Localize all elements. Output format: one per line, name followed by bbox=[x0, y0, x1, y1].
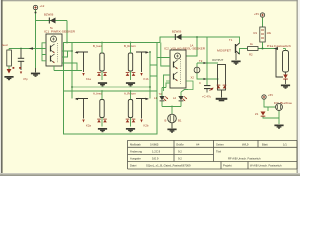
IC1 dashed line bbox=[57, 43, 59, 63]
relay K1 coil bbox=[100, 53, 104, 71]
buzzer SP1 bbox=[168, 114, 177, 123]
capacitor C2 bbox=[204, 85, 213, 93]
wire rail extension bbox=[157, 37, 160, 43]
diode Z1 bbox=[261, 112, 266, 117]
svg-text:R2: R2 bbox=[249, 53, 253, 57]
svg-text:5:E.9: 5:E.9 bbox=[152, 157, 159, 161]
IC2 dashed line bbox=[180, 59, 182, 84]
ground K1b bbox=[126, 82, 135, 86]
ground K1 bbox=[98, 82, 107, 86]
relay K2a contact bbox=[75, 98, 89, 123]
svg-text:A_feed: A_feed bbox=[93, 92, 102, 96]
arrow mark output bbox=[204, 62, 207, 64]
svg-text:+5V: +5V bbox=[254, 12, 259, 16]
connector X1 feed bbox=[7, 49, 12, 70]
title block row2 bbox=[130, 150, 182, 161]
svg-text:L1: L1 bbox=[154, 96, 158, 100]
wire IC1 right pin to relay col1 bbox=[62, 43, 72, 99]
svg-text:+5V: +5V bbox=[268, 93, 273, 97]
svg-text:1/1: 1/1 bbox=[283, 143, 287, 147]
pin arrow on feed wire bbox=[29, 47, 34, 50]
op IC1 box bbox=[46, 34, 62, 66]
resistor R2 bbox=[248, 47, 259, 51]
relay K1b coil bbox=[128, 53, 132, 71]
svg-text:+C 47u: +C 47u bbox=[202, 95, 212, 99]
junction dot feed bbox=[20, 48, 22, 50]
svg-text:K2a: K2a bbox=[86, 124, 91, 128]
wire top D2 row bbox=[160, 37, 248, 54]
diodes in output box bbox=[217, 85, 227, 89]
relay group box bbox=[64, 43, 158, 135]
svg-text:0.6665: 0.6665 bbox=[150, 143, 159, 147]
capacitor C1 bbox=[18, 49, 24, 75]
window border left bbox=[0, 0, 1, 176]
title block frame bbox=[128, 140, 298, 169]
window border bottom bbox=[0, 173, 300, 174]
red speck 1 bbox=[13, 67, 15, 69]
relay group divider bbox=[64, 90, 158, 92]
svg-text:K1a: K1a bbox=[86, 77, 91, 81]
supply +5V top bbox=[260, 13, 264, 17]
diode under switch bbox=[283, 75, 288, 80]
svg-text:10k: 10k bbox=[267, 31, 272, 35]
svg-text:RF A/B Umsch. Fastswitch: RF A/B Umsch. Fastswitch bbox=[228, 157, 261, 161]
wire IC1 left pin hooks bbox=[36, 43, 46, 61]
svg-text:X2: X2 bbox=[191, 76, 195, 80]
svg-text:W A/B Umsch. Fastswitch: W A/B Umsch. Fastswitch bbox=[250, 164, 282, 168]
ground output bbox=[221, 90, 223, 98]
led LED1 bbox=[159, 96, 168, 101]
svg-text:IC1 PWRX-SEEKER: IC1 PWRX-SEEKER bbox=[44, 30, 75, 34]
svg-text:Maßstab: Maßstab bbox=[130, 143, 141, 147]
diode at feed bbox=[7, 69, 12, 74]
svg-text:Datei: Datei bbox=[130, 164, 137, 168]
ground K2b bbox=[126, 128, 135, 132]
IC1 oscillator circle bbox=[51, 36, 57, 42]
svg-text:MOSFET: MOSFET bbox=[217, 49, 231, 53]
svg-text:R1: R1 bbox=[254, 31, 258, 35]
ground T1 bbox=[231, 61, 240, 65]
svg-text:BZW06: BZW06 bbox=[172, 30, 182, 34]
title block row1 labels bbox=[130, 143, 287, 147]
wire IC2 bottom staircase bbox=[166, 81, 193, 90]
ground K2 bbox=[98, 128, 107, 132]
diode D2 bbox=[175, 34, 182, 40]
ground dc jack bbox=[274, 125, 283, 129]
wire D2 junction down to IC2 bbox=[186, 37, 197, 56]
wire dc jack bbox=[263, 100, 279, 124]
svg-text:73: 73 bbox=[159, 92, 163, 96]
svg-text:9:2: 9:2 bbox=[178, 150, 182, 154]
svg-text:P1a Fastswitch: P1a Fastswitch bbox=[267, 44, 292, 48]
wire diode top row bbox=[36, 21, 68, 43]
svg-text:B_feed: B_feed bbox=[93, 44, 102, 48]
svg-text:9:2: 9:2 bbox=[178, 157, 182, 161]
svg-text:T2: T2 bbox=[199, 59, 203, 63]
connector output box bbox=[218, 65, 226, 91]
supply +12V bbox=[33, 5, 37, 9]
junction dots bbox=[66, 42, 208, 108]
window border top bbox=[0, 0, 300, 1]
ground fastswitch bbox=[281, 85, 290, 89]
svg-text:T1: T1 bbox=[229, 38, 233, 42]
svg-text:C: C bbox=[199, 81, 201, 85]
IC1 transistor Q b bbox=[51, 54, 55, 63]
wire +5V down bbox=[262, 18, 264, 27]
supply +5V bottom bbox=[262, 95, 266, 99]
title block row4 bbox=[130, 164, 282, 168]
svg-text:K1b: K1b bbox=[144, 77, 149, 81]
relay K2 coil bbox=[100, 100, 104, 118]
wire R1 to rail bbox=[262, 42, 264, 49]
relay K2b contact bbox=[136, 98, 149, 123]
op IC2 box bbox=[170, 50, 186, 88]
diodes under K2b coil bbox=[126, 119, 136, 123]
svg-text:Änderung: Änderung bbox=[130, 150, 142, 154]
wire IC2 right to output node bbox=[197, 37, 219, 85]
svg-text:Größe: Größe bbox=[176, 143, 184, 147]
svg-text:1:2C.9: 1:2C.9 bbox=[152, 150, 161, 154]
diodes under K2 coil bbox=[97, 119, 107, 123]
connector switch box bbox=[283, 51, 289, 73]
svg-text:OUTPUT: OUTPUT bbox=[212, 58, 224, 62]
wire IC2 left pin staircase bbox=[157, 43, 170, 92]
wire buzzer bbox=[162, 107, 181, 115]
svg-text:K2b: K2b bbox=[144, 124, 149, 128]
svg-text:Blatt: Blatt bbox=[262, 143, 268, 147]
svg-text:B: B bbox=[165, 119, 167, 123]
wire base rail bbox=[258, 48, 276, 50]
IC2 transistor Q a bbox=[174, 60, 178, 69]
svg-text:B1: B1 bbox=[178, 119, 182, 123]
svg-text:BZW06: BZW06 bbox=[44, 13, 54, 17]
svg-text:+12: +12 bbox=[40, 4, 45, 8]
svg-text:Seiten: Seiten bbox=[216, 143, 224, 147]
svg-text:47p: 47p bbox=[23, 77, 28, 81]
wire IC1 right pin to relay col2 bbox=[54, 52, 157, 99]
IC2 transistor Q b bbox=[174, 72, 178, 81]
svg-text:feed: feed bbox=[2, 43, 8, 47]
svg-text:Titel: Titel bbox=[216, 150, 221, 154]
ground under IC1 bbox=[35, 68, 37, 72]
wire T1 emitter bbox=[235, 53, 237, 60]
IC1 transistor Q a bbox=[51, 44, 55, 53]
connector X2 bbox=[194, 67, 200, 73]
svg-text:Z1: Z1 bbox=[255, 112, 259, 116]
transistor T1 bbox=[235, 43, 240, 55]
led LED2 bbox=[178, 96, 187, 101]
connector DC jack bbox=[276, 104, 283, 111]
sheet background bbox=[0, 0, 300, 176]
diodes under K1b coil bbox=[126, 72, 136, 76]
wire LED net bbox=[162, 88, 188, 107]
svg-text:SQxxL_v1_B_Gated_Fastsw567369: SQxxL_v1_B_Gated_Fastsw567369 bbox=[146, 164, 191, 168]
svg-text:W/L9: W/L9 bbox=[242, 143, 249, 147]
wire branch A row bbox=[72, 86, 150, 88]
svg-text:A4: A4 bbox=[196, 143, 200, 147]
wire feed line bbox=[9, 48, 36, 50]
resistor R1 bbox=[260, 27, 265, 42]
diode D1 BZW06 bbox=[49, 18, 56, 24]
red speck 2 bbox=[19, 67, 21, 69]
window border right bbox=[297, 0, 298, 176]
ground feed bbox=[4, 76, 13, 80]
diodes under K1 coil bbox=[97, 72, 107, 76]
svg-text:Ausgabe: Ausgabe bbox=[130, 157, 141, 161]
ground buzzer bbox=[171, 123, 173, 129]
svg-text:Projekt: Projekt bbox=[223, 164, 232, 168]
relay K2b coil bbox=[128, 100, 132, 118]
wire +12 vertical rail bbox=[35, 10, 37, 68]
junction dot bbox=[35, 12, 37, 14]
relay K1a contact bbox=[75, 51, 89, 76]
IC2 oscillator circle bbox=[175, 53, 181, 59]
relay K1b contact bbox=[136, 51, 149, 76]
switch P1a bbox=[274, 47, 284, 77]
svg-text:L2: L2 bbox=[173, 96, 177, 100]
